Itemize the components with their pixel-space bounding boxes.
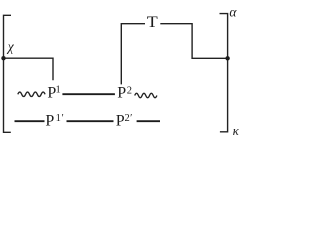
svg-text:P: P xyxy=(117,84,126,101)
wire P1' to P2' xyxy=(67,120,114,122)
wire right of P2' xyxy=(137,120,160,122)
T-bracket right segment with wire to right bracket xyxy=(160,24,227,59)
svg-text:1: 1 xyxy=(56,85,61,96)
wire P1 to P2 xyxy=(62,93,115,95)
svg-text:T: T xyxy=(147,14,158,31)
wire left of P1' xyxy=(15,120,45,122)
svg-text:P: P xyxy=(45,112,54,129)
svg-text:κ: κ xyxy=(233,123,240,137)
svg-text:2′: 2′ xyxy=(125,113,133,124)
wire from node chi to P1 xyxy=(4,58,54,80)
right bracket xyxy=(220,14,228,132)
squiggle left of P1 xyxy=(18,92,45,96)
svg-text:P: P xyxy=(116,112,125,129)
svg-text:2: 2 xyxy=(127,85,132,96)
svg-text:1′: 1′ xyxy=(56,113,65,124)
left bracket xyxy=(4,15,12,132)
node chi dot xyxy=(1,56,5,60)
svg-text:α: α xyxy=(229,5,237,20)
junction dot on right bracket xyxy=(225,56,229,60)
squiggle right of P2 xyxy=(135,93,157,97)
svg-text:χ: χ xyxy=(6,39,15,54)
T-bracket left segment and drop to P2 xyxy=(121,24,145,85)
